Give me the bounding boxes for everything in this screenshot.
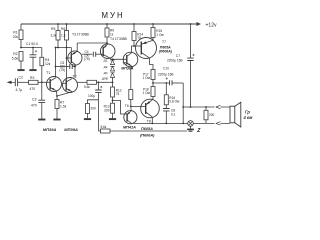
wire output drop x183 — [182, 83, 184, 123]
wire T6 emitter to bottom rail — [130, 122, 133, 124]
resistor R12 — [111, 82, 122, 103]
diode D3 — [102, 71, 115, 82]
svg-text:470: 470 — [30, 87, 36, 91]
svg-text:Т1: Т1 — [46, 71, 50, 75]
transistor T3 — [67, 32, 90, 66]
diode D2 — [104, 65, 115, 71]
ground under jack — [190, 126, 192, 129]
svg-text:Гр: Гр — [245, 110, 250, 115]
svg-text:МП41А: МП41А — [123, 126, 136, 130]
resistor R10 — [86, 100, 99, 116]
svg-text:12к: 12к — [45, 62, 51, 66]
resistor R11 — [129, 90, 133, 111]
capacitor C10 — [158, 67, 183, 86]
wire speaker top line — [183, 106, 230, 108]
transistor T4 — [100, 37, 127, 59]
svg-text:200: 200 — [209, 113, 215, 117]
wire T5 emitter chain down — [131, 67, 132, 90]
svg-text:5,6к: 5,6к — [12, 57, 19, 61]
resistor R18 — [143, 87, 156, 101]
svg-text:Д9В: Д9В — [102, 77, 108, 81]
wire T5 collector up — [132, 46, 136, 53]
svg-text:2200µ 16В: 2200µ 16В — [158, 72, 174, 76]
svg-text:R5: R5 — [51, 27, 55, 31]
svg-text:(П606А): (П606А) — [159, 50, 173, 54]
svg-text:МП39А: МП39А — [43, 127, 57, 132]
capacitor C3 — [31, 82, 45, 116]
wire output line y83 — [153, 82, 169, 84]
wire top supply rail — [21, 23, 196, 25]
resistor R2 — [12, 52, 23, 62]
wire T3 emitter to T2 collector — [74, 67, 75, 78]
svg-text:100µ: 100µ — [88, 94, 95, 98]
svg-text:Т6: Т6 — [125, 104, 129, 108]
svg-text:0,8 Ом: 0,8 Ом — [169, 100, 179, 104]
svg-text:МП39А: МП39А — [64, 127, 78, 132]
transistor T8 — [141, 99, 160, 123]
svg-text:1,3: 1,3 — [61, 34, 66, 38]
resistor R16 — [164, 82, 179, 105]
wire T1 emitter to R7 — [55, 91, 58, 96]
wire feedback line — [98, 130, 187, 132]
resistor R13 — [104, 103, 115, 115]
wire T7 base from T5 collector — [135, 45, 141, 47]
jack Z — [188, 121, 202, 134]
resistor R3 — [29, 76, 47, 91]
svg-text:Д1: Д1 — [104, 58, 108, 62]
transistor T1 — [46, 71, 62, 92]
node base T1 junction — [41, 81, 43, 83]
resistor R14 — [132, 23, 143, 47]
speaker Гр — [230, 102, 252, 127]
ground under R10 — [84, 115, 91, 119]
wire T6 base — [113, 100, 125, 114]
node +12v arrow — [196, 23, 200, 26]
svg-text:R2: R2 — [13, 52, 17, 56]
svg-text:4 ом: 4 ом — [243, 115, 253, 120]
svg-text:470: 470 — [31, 103, 37, 107]
resistor R8 — [84, 80, 113, 89]
capacitor C8 — [163, 105, 176, 125]
node emitter junction — [56, 95, 58, 97]
svg-text:5,6к: 5,6к — [101, 125, 107, 129]
svg-text:С1 50,0: С1 50,0 — [26, 42, 38, 46]
svg-text:Д3: Д3 — [104, 71, 108, 75]
svg-text:Т7: Т7 — [162, 40, 166, 44]
resistor R6 — [61, 23, 69, 83]
ground under R2 — [17, 66, 24, 70]
wire collector bus T1/T3 — [56, 48, 72, 77]
svg-text:Т4 1Т308В: Т4 1Т308В — [110, 37, 128, 41]
node speaker line junction — [190, 106, 192, 108]
svg-text:22к: 22к — [13, 35, 19, 39]
diode D1 — [104, 58, 115, 64]
svg-text:С3: С3 — [32, 97, 36, 101]
svg-text:Т3 1Т308В: Т3 1Т308В — [72, 32, 90, 36]
svg-text:4,7µ: 4,7µ — [16, 88, 23, 92]
wire T7 emitter to R17 — [150, 58, 154, 70]
resistor R15 — [151, 23, 164, 40]
svg-text:1 Ом: 1 Ом — [143, 91, 150, 95]
connector chevron top — [216, 105, 221, 108]
transistor T5 — [122, 52, 138, 67]
svg-text:1 Ом: 1 Ом — [156, 33, 163, 37]
capacitor C7 — [167, 23, 195, 107]
capacitor C5 — [55, 61, 75, 72]
capacitor C4 — [82, 50, 103, 61]
resistor Roc 5,6к — [101, 125, 111, 133]
svg-text:+12v: +12v — [206, 23, 217, 29]
resistor R9 — [105, 23, 114, 44]
resistor R7 — [55, 96, 67, 116]
resistor R19 — [204, 106, 215, 123]
svg-text:МУН: МУН — [102, 11, 125, 20]
ground under R13 — [109, 115, 116, 119]
wire T4 emitter to T5 base — [110, 58, 127, 59]
ground under C3 — [38, 116, 45, 120]
wire T6 collector to T8 base — [131, 105, 146, 107]
transistor T2 — [63, 75, 78, 93]
wire bottom rail — [131, 122, 231, 124]
svg-text:1 Ом: 1 Ом — [143, 76, 150, 80]
svg-text:С10: С10 — [163, 67, 169, 71]
wire T8 emitter to bottom rail — [151, 117, 153, 124]
resistor R1 — [13, 30, 23, 40]
svg-text:С2: С2 — [19, 76, 23, 80]
wire R2 to ground — [20, 61, 22, 66]
svg-text:П605А: П605А — [141, 127, 153, 131]
resistor R4 — [40, 48, 51, 83]
capacitor C6 — [88, 82, 102, 131]
svg-text:R3: R3 — [30, 76, 34, 80]
svg-text:(75): (75) — [59, 68, 65, 72]
svg-text:R1: R1 — [13, 30, 17, 34]
transistor T7 — [136, 38, 173, 59]
svg-text:1,5к: 1,5к — [60, 105, 67, 109]
wire T2 emitter to R7 — [57, 92, 72, 96]
wire R1 to node — [21, 40, 42, 48]
svg-text:200: 200 — [104, 108, 110, 112]
resistor R17 — [143, 70, 156, 87]
svg-text:3,3к: 3,3к — [51, 34, 57, 38]
svg-text:(75): (75) — [84, 57, 90, 61]
svg-text:5,6к: 5,6к — [84, 85, 90, 89]
svg-text:(П606А): (П606А) — [140, 134, 155, 138]
transistor T6 — [124, 104, 137, 124]
svg-text:Д2: Д2 — [104, 65, 108, 69]
wire R1 drop — [20, 24, 22, 30]
svg-text:75: 75 — [116, 92, 120, 96]
wire signal bus y82 — [78, 81, 88, 83]
connector chevron bottom — [216, 122, 221, 125]
ground under C1 — [29, 66, 36, 70]
node input arrow — [8, 81, 15, 83]
node bias junction — [20, 47, 22, 49]
capacitor C1 — [26, 42, 38, 66]
svg-text:200: 200 — [91, 107, 97, 111]
ground under R7 — [53, 116, 60, 120]
svg-text:2200µ 15В: 2200µ 15В — [167, 58, 183, 62]
svg-text:Т8: Т8 — [147, 119, 151, 123]
resistor R5 — [51, 23, 61, 47]
svg-text:0,1: 0,1 — [171, 112, 176, 116]
capacitor C2 — [15, 76, 28, 92]
